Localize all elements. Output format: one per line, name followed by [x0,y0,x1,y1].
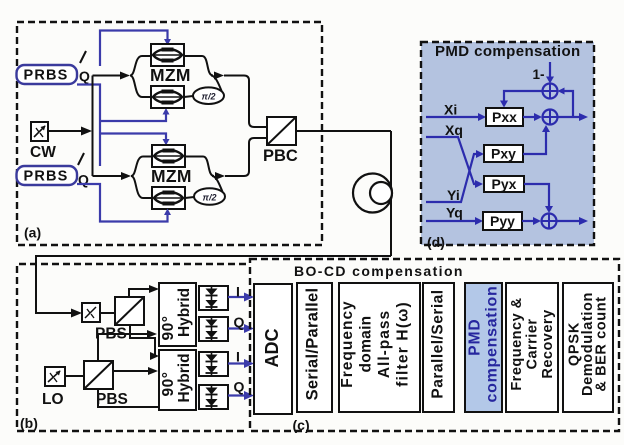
svg-text:π/2: π/2 [203,192,217,202]
phase shifter pi/2 MZM2 [194,188,225,205]
fiber loop coil [353,174,392,213]
svg-text:π/2: π/2 [202,92,216,102]
svg-text:LO: LO [42,391,64,408]
svg-text:I: I [236,349,240,365]
PBS1 signal polarization beam splitter [115,297,144,325]
svg-text:PRBS: PRBS [23,169,68,185]
svg-text:Q: Q [234,314,245,330]
svg-text:CW: CW [30,144,56,161]
svg-text:PMD compensation: PMD compensation [435,43,581,60]
wire PBS2 to hybrid2 [113,367,158,375]
block QPSK demodulation [563,283,613,412]
svg-text:PBC: PBC [263,147,298,165]
wire CW split vertical [92,76,94,177]
adder U3 bottom [542,214,557,229]
photodiode input box [82,303,100,322]
wire blue I1 PRBS1 to MZM1 top [100,31,171,67]
wire detector4 to ADC [228,391,254,400]
wire to MZM2 input [93,172,132,180]
svg-text:Xi: Xi [444,102,457,118]
svg-text:Frequency: Frequency [339,300,356,387]
svg-text:MZM: MZM [150,65,191,85]
svg-text:1-: 1- [533,67,545,82]
svg-text:compensation: compensation [484,286,501,403]
svg-text:Hybrid: Hybrid [176,288,193,337]
wire blue Q1 PRBS1 down bus [77,85,100,167]
wire CW output with arrow [48,127,92,136]
MZM2 IQ modulator [131,145,225,209]
svg-text:90°: 90° [160,372,177,397]
MZM1 IQ modulator [130,44,224,108]
wire Xi to Pxx [426,113,486,121]
block PMD compensation [465,283,502,412]
dashed box (d) PMD compensation detail [421,42,594,245]
wire fiber to receiver [36,256,391,318]
wire MZM2 to PBC [225,138,267,176]
PBS2 LO polarization beam splitter [84,361,113,389]
filter Pyy [483,212,522,230]
svg-text:Pyy: Pyy [490,213,515,229]
svg-text:Serial/Parallel: Serial/Parallel [303,288,321,401]
balanced detector 2 [199,317,228,341]
wire Yq to Pyy [426,217,483,225]
laser LO box [45,367,65,386]
balanced detector 4 [199,385,228,409]
wire PBS1 to hybrid1 [129,285,159,297]
svg-text:Pxy: Pxy [491,146,516,162]
wire detector1 to ADC [228,293,254,302]
wire Pxx to adder2 [523,113,542,121]
block frequency and carrier recovery [506,283,558,412]
dashed box (c) DSP [250,259,619,431]
wire 1- into adder1 [546,62,554,84]
PRBS generator 2 [17,166,78,185]
bus tick I1 [80,51,86,63]
hybrid2 90 degree [159,350,196,410]
filter Pxx [486,108,523,126]
wire Xq cross to Pyx [426,137,483,188]
adder U1 top [543,84,558,99]
svg-text:Recovery: Recovery [540,309,556,378]
balanced detector 3 [199,352,228,376]
svg-text:filter H(ω): filter H(ω) [395,301,412,387]
svg-text:(a): (a) [24,225,41,241]
wire PBS2 bottom to hybrid2 [98,389,159,407]
dashed box (a) transmitter [17,22,322,245]
filter Pxy [484,145,523,162]
wire detector2 to ADC [228,324,254,333]
filter Pyx [484,176,524,192]
block ADC [254,284,292,414]
hybrid1 90 degree [159,283,196,346]
svg-text:PBS: PBS [96,391,128,408]
adder U2 middle [543,110,558,125]
svg-text:Hybrid: Hybrid [176,353,193,402]
wire MZM1 to PBC [224,76,267,128]
wire to MZM1 input [93,72,131,80]
wire adder1 to Pxx input [500,91,543,108]
fiber span vertical wire [390,131,392,256]
svg-text:PMD: PMD [467,318,484,355]
svg-text:ADC: ADC [262,329,282,368]
svg-text:domain: domain [358,316,375,373]
svg-text:MZM: MZM [151,166,192,186]
wire PBS1 to hybrid2 [130,325,159,360]
svg-text:Frequency &: Frequency & [509,297,525,390]
wire Pyx down to adder3 [524,184,553,213]
svg-text:& BER count: & BER count [593,296,609,391]
wire Pyy to adder3 [522,217,541,225]
wire blue I2 to MZM2 top [100,134,170,146]
svg-text:Parallel/Serial: Parallel/Serial [430,289,447,398]
svg-text:Xq: Xq [445,122,463,138]
svg-text:(d): (d) [427,234,445,250]
wire feedback from adder2 output up to adder1 [558,88,574,118]
balanced detector 1 [199,286,228,310]
dashed box (b) receiver [17,264,246,431]
svg-text:Q: Q [234,379,245,395]
wire blue Q2 to MZM2 bottom [77,184,171,222]
svg-text:PRBS: PRBS [23,68,68,84]
wire LO to PBS2 [65,375,84,377]
wire Yi cross to Pxy [426,150,484,202]
bus tick I2 [78,153,84,165]
svg-text:Pyx: Pyx [492,176,517,192]
svg-text:I: I [236,284,240,300]
PRBS generator 1 [17,65,78,84]
PBC polarization beam combiner [267,117,296,145]
svg-text:Yq: Yq [446,205,463,221]
svg-text:BO-CD compensation: BO-CD compensation [294,263,464,279]
phase shifter pi/2 MZM1 [193,87,224,104]
svg-text:(c): (c) [293,417,310,433]
wire adder2 output [558,113,589,121]
svg-text:All-pass: All-pass [376,310,393,378]
wire Pxy up to adder2 [523,125,550,154]
block frequency domain all-pass filter [339,283,420,412]
svg-text:(b): (b) [20,415,38,431]
block Serial/Parallel [297,283,332,412]
wire detector3 to ADC [228,359,254,368]
svg-text:Yi: Yi [447,187,460,203]
svg-text:Pxx: Pxx [492,109,517,125]
wire adder3 output [557,217,589,225]
wire blue Q1 to MZM1 bottom [100,108,170,121]
wire PBC to fiber [296,130,391,132]
svg-text:Carrier: Carrier [524,318,540,369]
svg-text:90°: 90° [160,316,177,341]
block Parallel/Serial [423,283,454,412]
laser CW box [31,122,48,141]
wire PBS2 to hybrid1 [98,330,157,361]
svg-text:Q: Q [79,68,90,84]
wire to PBS1 [100,312,115,314]
